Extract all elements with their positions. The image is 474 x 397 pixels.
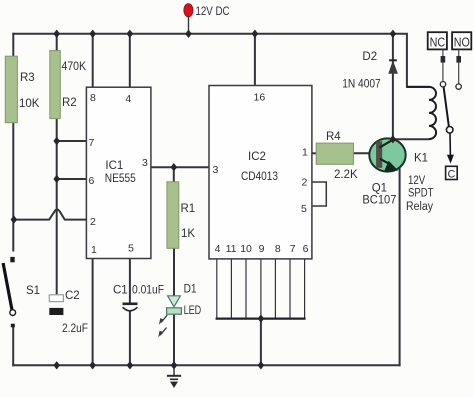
resistor R2 xyxy=(50,51,61,119)
capacitor C1 top plate xyxy=(123,302,138,305)
svg-text:R2: R2 xyxy=(62,97,77,109)
relay NC terminal stem and square xyxy=(441,49,446,81)
svg-text:7: 7 xyxy=(89,137,95,149)
svg-text:4: 4 xyxy=(215,243,221,255)
wire R1 top branch xyxy=(173,167,175,182)
LED D1 emission arrows xyxy=(158,315,167,337)
svg-text:6: 6 xyxy=(89,175,95,187)
svg-text:IC1: IC1 xyxy=(105,160,123,172)
svg-text:5: 5 xyxy=(301,203,307,215)
wire coil bottom to collector xyxy=(393,138,428,140)
relay arrow to C xyxy=(447,133,454,163)
transistor Q1 emitter arrow xyxy=(384,161,398,171)
wire R4 to base xyxy=(354,152,377,154)
svg-text:CD4013: CD4013 xyxy=(241,171,278,183)
capacitor C2 top plate xyxy=(49,295,63,302)
wire IC1 pin3 to IC2 pin3 xyxy=(151,166,209,168)
relay NC terminal box xyxy=(428,32,447,49)
svg-text:1N 4007: 1N 4007 xyxy=(342,79,381,91)
svg-text:0.01uF: 0.01uF xyxy=(132,285,164,297)
wire LED to rail xyxy=(173,314,175,366)
relay NO terminal box xyxy=(452,32,471,49)
svg-text:1K: 1K xyxy=(181,228,195,240)
transistor Q1 base bar xyxy=(376,141,382,168)
switch S1 lever xyxy=(3,263,12,310)
LED D1 triangle xyxy=(168,296,181,307)
switch S1 pivot circle xyxy=(10,310,16,316)
svg-text:6: 6 xyxy=(303,243,309,255)
capacitor C1 curved plate xyxy=(123,307,138,311)
svg-text:2.2uF: 2.2uF xyxy=(62,323,88,335)
svg-text:470K: 470K xyxy=(62,61,87,73)
svg-text:3: 3 xyxy=(213,164,219,176)
wire S1 bottom to ground rail xyxy=(12,327,14,365)
svg-text:NC: NC xyxy=(430,36,446,50)
IC2 bottom ground bus xyxy=(216,318,306,320)
switch S1 top terminal xyxy=(10,257,14,262)
svg-text:5: 5 xyxy=(128,243,134,255)
svg-text:2: 2 xyxy=(90,216,96,228)
svg-text:7: 7 xyxy=(290,243,296,255)
svg-text:16: 16 xyxy=(254,92,266,104)
svg-text:K1: K1 xyxy=(414,153,428,165)
svg-text:2.2K: 2.2K xyxy=(334,169,358,181)
svg-text:10: 10 xyxy=(240,243,252,255)
wire IC2 pin16 xyxy=(254,34,256,86)
svg-text:Relay: Relay xyxy=(406,201,433,213)
LED D1 cathode bar xyxy=(167,308,182,314)
svg-text:2: 2 xyxy=(302,177,308,189)
svg-text:3: 3 xyxy=(142,157,148,169)
svg-text:SPDT: SPDT xyxy=(408,188,433,200)
wire R1 to LED xyxy=(173,248,175,296)
relay NO terminal stem and square xyxy=(456,49,461,83)
transistor Q1 body xyxy=(369,138,405,171)
svg-text:IC2: IC2 xyxy=(248,151,266,163)
wire IC2 pin1 to R4 xyxy=(312,152,316,154)
svg-text:12V: 12V xyxy=(408,175,425,187)
transistor Q1 collector lead xyxy=(380,140,394,148)
resistor R4 xyxy=(316,143,353,164)
12V DC terminal dot xyxy=(184,4,193,17)
svg-text:11: 11 xyxy=(226,243,237,255)
svg-text:10K: 10K xyxy=(19,98,40,110)
svg-text:1: 1 xyxy=(302,147,308,159)
svg-text:S1: S1 xyxy=(26,285,40,297)
svg-text:1: 1 xyxy=(91,244,97,256)
svg-text:12V DC: 12V DC xyxy=(196,6,230,18)
svg-text:4: 4 xyxy=(125,93,131,105)
wire emitter vertical xyxy=(399,168,401,366)
diode D2 cathode bar xyxy=(389,59,397,61)
ground symbol xyxy=(167,365,181,387)
capacitor C2 bottom plate xyxy=(49,308,63,315)
wire IC1 pin1 to rail xyxy=(92,259,94,366)
svg-text:8: 8 xyxy=(275,243,281,255)
resistor R1 xyxy=(167,182,179,249)
wire IC1 pin8 xyxy=(92,34,94,87)
switch S1 bottom terminal xyxy=(11,324,15,328)
resistor R3 xyxy=(5,56,17,123)
IC2 CD4013 box xyxy=(209,86,312,259)
svg-text:C2: C2 xyxy=(65,290,80,302)
svg-text:8: 8 xyxy=(90,92,96,104)
wire ground drop from bus xyxy=(260,319,262,366)
svg-text:9: 9 xyxy=(259,243,265,255)
svg-text:Q1: Q1 xyxy=(372,183,387,195)
relay coil K1 xyxy=(407,87,436,139)
diode D2 triangle xyxy=(389,62,397,74)
wire D2 branch / collector xyxy=(392,34,394,140)
svg-text:C: C xyxy=(448,169,456,181)
relay armature arm xyxy=(444,87,449,127)
relay NO contact circle xyxy=(456,84,461,89)
svg-text:R1: R1 xyxy=(181,203,196,215)
svg-text:R4: R4 xyxy=(326,131,341,143)
transistor Q1 emitter lead xyxy=(380,159,391,165)
IC2 bottom pin wires xyxy=(217,259,305,319)
relay NC contact circle xyxy=(440,82,445,87)
wire top power rail xyxy=(13,34,428,87)
svg-text:R3: R3 xyxy=(20,72,35,84)
wire R2 branch vertical xyxy=(56,34,58,295)
wire IC1 pin2 with hop over R2 wire xyxy=(14,209,87,219)
svg-text:LED: LED xyxy=(184,305,202,317)
IC2 pins 2-5 loop xyxy=(312,182,326,206)
svg-text:C1: C1 xyxy=(113,285,128,297)
wire C1 to rail xyxy=(129,313,131,366)
relay C terminal box xyxy=(446,166,458,179)
wire IC1 pin7 xyxy=(57,140,87,142)
wire left vertical branch xyxy=(12,34,14,251)
wire IC1 pin6 xyxy=(57,178,87,180)
wire IC1 pin4 xyxy=(129,34,131,87)
wire 12V stem xyxy=(188,15,190,34)
svg-text:D2: D2 xyxy=(362,51,377,63)
wire IC1 pin5 to C1 xyxy=(129,259,131,303)
svg-text:BC107: BC107 xyxy=(362,195,396,207)
svg-text:NE555: NE555 xyxy=(105,173,136,185)
svg-text:NO: NO xyxy=(454,36,470,50)
relay pivot circle xyxy=(446,127,453,134)
wire bottom ground rail xyxy=(13,364,399,366)
IC1 NE555 box xyxy=(86,87,150,258)
svg-text:D1: D1 xyxy=(184,284,197,296)
